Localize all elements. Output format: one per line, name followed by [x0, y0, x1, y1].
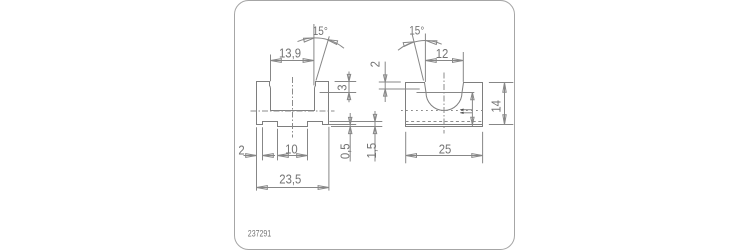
- right 15deg arrows: [403, 42, 414, 47]
- svg-text:23,5: 23,5: [279, 171, 301, 186]
- small solid arrowheads: [460, 109, 464, 115]
- dimension graphics: [244, 24, 514, 191]
- dim 13,9 arrows: [271, 59, 282, 63]
- dim 25 arrows: [406, 154, 417, 158]
- dim 12 line: [425, 60, 463, 62]
- right view vertical centerline: [443, 73, 445, 134]
- dim 10 ext lines: [277, 129, 279, 161]
- dim 1,5 ext line: [329, 121, 382, 123]
- dim 3 ext lines: [335, 81, 357, 83]
- left view vertical centerline: [292, 77, 294, 138]
- dim 25 ext lines: [405, 132, 407, 164]
- small dim arrows: [471, 93, 474, 100]
- texts rotated: [335, 61, 504, 159]
- dim 12 ext lines: [424, 34, 426, 83]
- svg-text:14: 14: [489, 100, 504, 113]
- dim 14 arrows: [503, 83, 506, 93]
- dim 12 arrows: [425, 59, 436, 63]
- svg-text:15°: 15°: [313, 25, 328, 38]
- dim 0,5 arrows: [349, 117, 352, 124]
- right 15deg slant line: [412, 34, 424, 81]
- dim 1,5 arrows: [373, 114, 376, 121]
- left 15deg arc: [298, 38, 345, 48]
- small dim leader lines: [460, 109, 472, 111]
- right 15deg arc: [398, 41, 442, 51]
- dim 0,5 ext lines: [329, 124, 356, 126]
- dim 23,5 arrows: [257, 186, 268, 190]
- svg-text:237291: 237291: [248, 229, 272, 239]
- svg-text:15°: 15°: [409, 25, 424, 38]
- dim 13,9 line: [271, 60, 314, 62]
- dim 2 mid ext lines: [379, 81, 401, 83]
- right view part outline: [406, 83, 483, 127]
- dim 14 line: [504, 83, 506, 125]
- right view dotted line: [401, 110, 486, 112]
- dim 23,5 ext line right: [328, 127, 330, 191]
- svg-text:12: 12: [436, 46, 449, 61]
- card border: [235, 1, 515, 250]
- small dim vertical line: [471, 93, 473, 127]
- svg-text:13,9: 13,9: [279, 46, 301, 61]
- dim 1,5 line: [374, 111, 376, 162]
- dim 2 bottom ext lines: [256, 127, 258, 190]
- left view horizontal centerline: [251, 110, 335, 112]
- dim 0,5 line: [349, 113, 351, 162]
- svg-text:2: 2: [238, 143, 244, 158]
- dim 10 line: [278, 155, 308, 157]
- texts horizontal: [238, 25, 451, 187]
- right view hidden line: [406, 121, 483, 123]
- dim 25 line: [406, 155, 483, 157]
- dim 2 mid arrows: [384, 75, 387, 82]
- dim 3 arrows: [347, 74, 350, 81]
- dim 2 bottom line + arrows: [244, 155, 257, 157]
- svg-text:2: 2: [367, 61, 382, 67]
- small dim line B ext: [417, 92, 475, 94]
- svg-text:10: 10: [285, 142, 298, 157]
- left 15deg slant line: [316, 36, 329, 80]
- left view part outline: [257, 82, 329, 127]
- svg-text:0,5: 0,5: [338, 143, 353, 159]
- left 15deg arrows: [304, 38, 315, 42]
- dim 13,9 ext lines: [270, 55, 272, 82]
- svg-text:1,5: 1,5: [364, 143, 379, 159]
- dim 23,5 line: [257, 187, 329, 189]
- dim 2 mid line: [384, 62, 386, 102]
- dim 3 line: [348, 72, 350, 103]
- centerlines: [251, 73, 486, 138]
- svg-text:3: 3: [335, 84, 350, 90]
- svg-text:25: 25: [439, 142, 452, 157]
- dim 10 arrows: [278, 154, 289, 158]
- dim 14 ext lines: [489, 82, 513, 84]
- right view inner bottom edge: [406, 124, 483, 126]
